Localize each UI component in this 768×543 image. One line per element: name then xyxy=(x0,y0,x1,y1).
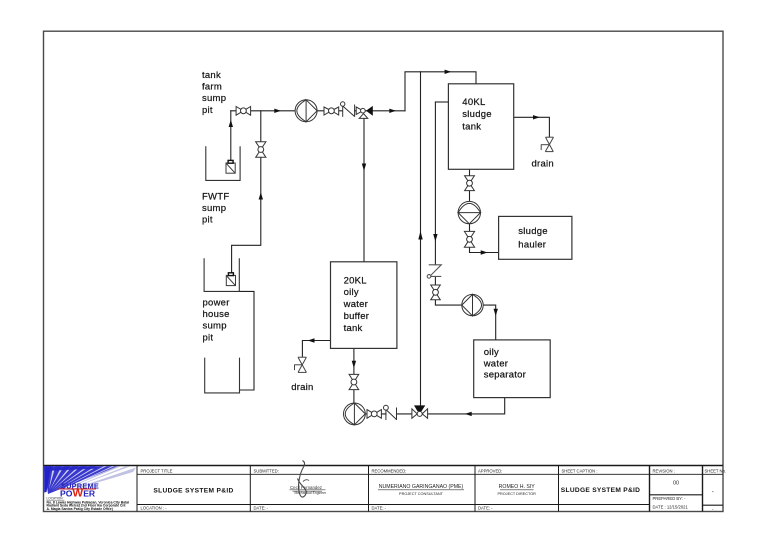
valve V6 (below zigzag) xyxy=(431,285,441,300)
wire 20KL left port to drain xyxy=(302,341,330,357)
valve V7 (20KL tank outlet) xyxy=(349,374,359,389)
flow arrow A6 xyxy=(418,231,422,240)
flow arrow A1 xyxy=(274,109,281,113)
svg-text:power: power xyxy=(203,297,230,308)
svg-text:sludge: sludge xyxy=(462,109,492,120)
label sludge hauler xyxy=(518,226,548,250)
sump pit tank farm xyxy=(206,146,240,180)
svg-text:DATE: -: DATE: - xyxy=(372,506,387,511)
svg-text:tank: tank xyxy=(344,323,363,334)
sump pit power house xyxy=(205,358,240,393)
title block verticals xyxy=(136,466,138,512)
flow arrow A13 xyxy=(494,309,498,316)
svg-text:-: - xyxy=(712,489,714,495)
wire main header right segment xyxy=(355,110,405,112)
svg-text:oily: oily xyxy=(484,347,499,358)
flow arrow A5 xyxy=(259,192,263,199)
svg-text:20KL: 20KL xyxy=(344,275,367,286)
svg-text:PROJECT DIRECTOR: PROJECT DIRECTOR xyxy=(497,492,536,496)
svg-text:sump: sump xyxy=(202,203,226,214)
svg-text:REVISION :: REVISION : xyxy=(653,468,675,473)
wire 40KL tank left port line xyxy=(435,101,448,103)
svg-text:Cecil Fernandez: Cecil Fernandez xyxy=(290,485,322,490)
submersible pump SP1 (tank farm) xyxy=(226,160,235,173)
valve V8 (pump 4 discharge) xyxy=(367,410,381,419)
svg-text:tank: tank xyxy=(202,70,221,81)
svg-text:buffer: buffer xyxy=(344,311,370,322)
logo supreme power sunburst xyxy=(44,466,136,494)
sheet no cell divider xyxy=(703,504,724,506)
label power house sump pit xyxy=(203,297,230,343)
svg-text:sump: sump xyxy=(203,321,227,332)
svg-text:NUMERIANO GARINGANAO (PME): NUMERIANO GARINGANAO (PME) xyxy=(379,484,464,490)
svg-text:APPROVED:: APPROVED: xyxy=(478,468,502,473)
flow arrow A7 xyxy=(433,234,437,242)
svg-text:oily: oily xyxy=(344,287,359,298)
valve V2 (after pump P1) xyxy=(324,107,339,115)
label 40KL sludge tank xyxy=(462,97,492,133)
revision cell divider xyxy=(650,494,703,496)
flow arrow A12 xyxy=(481,250,488,254)
drain valve DV2 (20KL drain) xyxy=(294,357,306,372)
title block sub-row divider xyxy=(137,504,650,506)
submersible pump SP2 (FWTF) xyxy=(226,273,235,286)
svg-text:farm: farm xyxy=(202,82,222,93)
label oily water separator xyxy=(483,347,526,381)
pump P1 (main transfer pump) xyxy=(295,100,317,122)
3-way valve TW2 (bottom line) xyxy=(412,405,428,418)
svg-text:RECOMMENDED:: RECOMMENDED: xyxy=(372,468,407,473)
valve V4 (40KL tank outlet) xyxy=(465,176,475,191)
svg-text:tank: tank xyxy=(462,121,481,132)
svg-text:SUBMITTED:: SUBMITTED: xyxy=(254,468,279,473)
logo red underline xyxy=(58,488,96,489)
wire pump 4 discharge to check valve xyxy=(365,413,386,415)
title block top border xyxy=(44,465,724,467)
wire 20KL bottom outlet to pump 4 xyxy=(353,348,355,403)
pump P3 (oily water separator feed pump) xyxy=(462,294,483,315)
wire main header left segment xyxy=(231,110,342,112)
svg-text:pit: pit xyxy=(202,105,213,116)
3-way valve TW1 (main line, feeds 20KL tank) xyxy=(356,107,368,118)
submitted signature xyxy=(290,461,328,498)
zigzag break symbol Z1 xyxy=(427,265,441,278)
label FWTF sump pit xyxy=(202,191,229,225)
flow arrow A9 xyxy=(352,361,356,368)
tank 20KL oily water buffer tank xyxy=(331,262,397,349)
svg-text:DATE : 12/15/2021: DATE : 12/15/2021 xyxy=(653,505,689,510)
pump P2 (sludge transfer pump) xyxy=(458,201,480,223)
drain valve DV1 (40KL drain) xyxy=(541,137,554,151)
svg-text:drain: drain xyxy=(532,158,554,169)
vessel oily water separator xyxy=(474,340,551,398)
wire riser from bottom 3-way valve to top header xyxy=(420,72,422,406)
tank 40KL sludge tank xyxy=(448,84,513,170)
title block header divider xyxy=(137,473,723,475)
svg-text:sludge: sludge xyxy=(518,226,548,237)
svg-text:40KL: 40KL xyxy=(462,97,485,108)
wire pit2 to pit3 connector xyxy=(239,291,254,390)
valve V1 (gate valve on main line after tank farm riser) xyxy=(236,107,251,116)
svg-text:separator: separator xyxy=(484,370,526,381)
sump pit FWTF xyxy=(204,258,239,291)
svg-text:water: water xyxy=(343,299,368,310)
label 20KL oily water buffer tank xyxy=(343,275,370,334)
svg-text:pit: pit xyxy=(203,332,214,343)
svg-text:PROJECT TITLE: PROJECT TITLE xyxy=(141,468,173,473)
wire power house branch with valve xyxy=(232,111,261,272)
pump P4 (20KL transfer pump) xyxy=(344,403,366,425)
flow arrow left-pointing into TW1 xyxy=(366,106,373,116)
box sludge hauler xyxy=(499,216,572,259)
flow arrow A2 xyxy=(389,109,396,113)
svg-text:SHEET No.: SHEET No. xyxy=(705,468,727,473)
wire tank farm pump discharge to main line xyxy=(230,111,232,161)
label tank farm sump pit xyxy=(202,70,226,116)
wire pump 3 discharge to separator top xyxy=(483,305,496,340)
svg-text:pit: pit xyxy=(202,215,213,226)
svg-text:DATE: -: DATE: - xyxy=(254,506,269,511)
title block xyxy=(44,466,724,512)
wire bottom line 3-way to separator riser xyxy=(428,398,505,414)
wire pump 2 to sludge hauler xyxy=(470,224,499,253)
wire top 3-way valve to 20KL tank top xyxy=(363,119,365,262)
valve V5 (pump 2 discharge) xyxy=(464,231,474,247)
wire check valve to 3-way valve xyxy=(397,413,412,415)
wire 40KL bottom to pump 2 xyxy=(469,169,471,201)
svg-text:ROMEO H. SIY: ROMEO H. SIY xyxy=(499,484,536,490)
svg-text:drain: drain xyxy=(291,382,313,393)
wire 40KL right port to drain valve xyxy=(514,117,550,137)
svg-text:hauler: hauler xyxy=(518,240,546,251)
svg-text:POWER: POWER xyxy=(60,488,96,500)
flow arrow A11 xyxy=(533,115,540,119)
valve V3 (power house branch) xyxy=(256,142,266,158)
svg-text:LOCATION : -: LOCATION : - xyxy=(141,506,168,511)
flow arrow A3 xyxy=(445,70,452,74)
svg-text:Mechanical Engineer: Mechanical Engineer xyxy=(295,491,328,495)
svg-text:PREPARED BY: -: PREPARED BY: - xyxy=(653,496,687,501)
svg-text:00: 00 xyxy=(673,480,679,486)
wire zigzag to pump 3 suction xyxy=(435,277,461,306)
svg-text:DATE: -: DATE: - xyxy=(478,506,493,511)
svg-text:house: house xyxy=(203,309,230,320)
svg-text:SLUDGE SYSTEM P&ID: SLUDGE SYSTEM P&ID xyxy=(561,487,640,494)
svg-text:A. Magia Santos Pasig City Est: A. Magia Santos Pasig City Estade Offce) xyxy=(47,507,113,511)
svg-text:SHEET CAPTION :: SHEET CAPTION : xyxy=(562,468,598,473)
svg-text:PROJECT CONSULTANT: PROJECT CONSULTANT xyxy=(399,492,444,496)
flow arrow A14 xyxy=(465,412,472,416)
wire main header riser xyxy=(405,72,476,111)
flow arrow A8 xyxy=(362,164,366,172)
svg-text:sump: sump xyxy=(202,93,226,104)
check valve CV2 (bottom line) xyxy=(384,405,397,420)
drawing frame xyxy=(44,31,724,511)
svg-text:SLUDGE SYSTEM P&ID: SLUDGE SYSTEM P&ID xyxy=(153,487,233,494)
svg-text:FWTF: FWTF xyxy=(202,191,229,202)
svg-text:water: water xyxy=(483,358,508,369)
check valve CV1 (main line) xyxy=(341,102,355,117)
flow arrow A4 xyxy=(229,120,233,127)
flow arrow A10 xyxy=(308,338,315,342)
wire 40KL drain line upper xyxy=(434,102,436,265)
